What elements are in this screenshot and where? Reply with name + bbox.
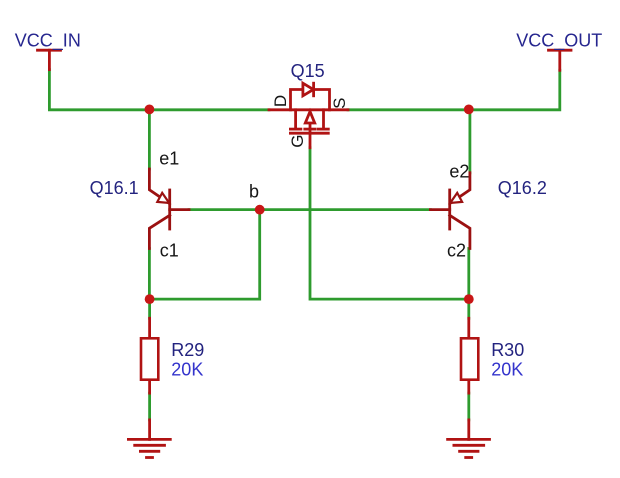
svg-text:c1: c1 [160, 241, 179, 261]
svg-text:b: b [249, 182, 259, 202]
svg-text:R30: R30 [491, 340, 524, 360]
svg-text:VCC_IN: VCC_IN [15, 30, 81, 51]
svg-text:20K: 20K [491, 360, 523, 380]
svg-text:VCC_OUT: VCC_OUT [516, 30, 602, 51]
svg-text:c2: c2 [447, 241, 466, 261]
svg-text:Q16.1: Q16.1 [90, 178, 139, 198]
svg-text:Q15: Q15 [291, 61, 325, 81]
svg-text:e1: e1 [159, 149, 179, 169]
svg-text:G: G [288, 135, 307, 148]
svg-text:20K: 20K [171, 360, 203, 380]
svg-text:e2: e2 [449, 162, 469, 182]
svg-text:R29: R29 [171, 340, 204, 360]
svg-text:S: S [330, 98, 349, 109]
svg-text:Q16.2: Q16.2 [498, 178, 547, 198]
svg-text:D: D [271, 95, 290, 107]
